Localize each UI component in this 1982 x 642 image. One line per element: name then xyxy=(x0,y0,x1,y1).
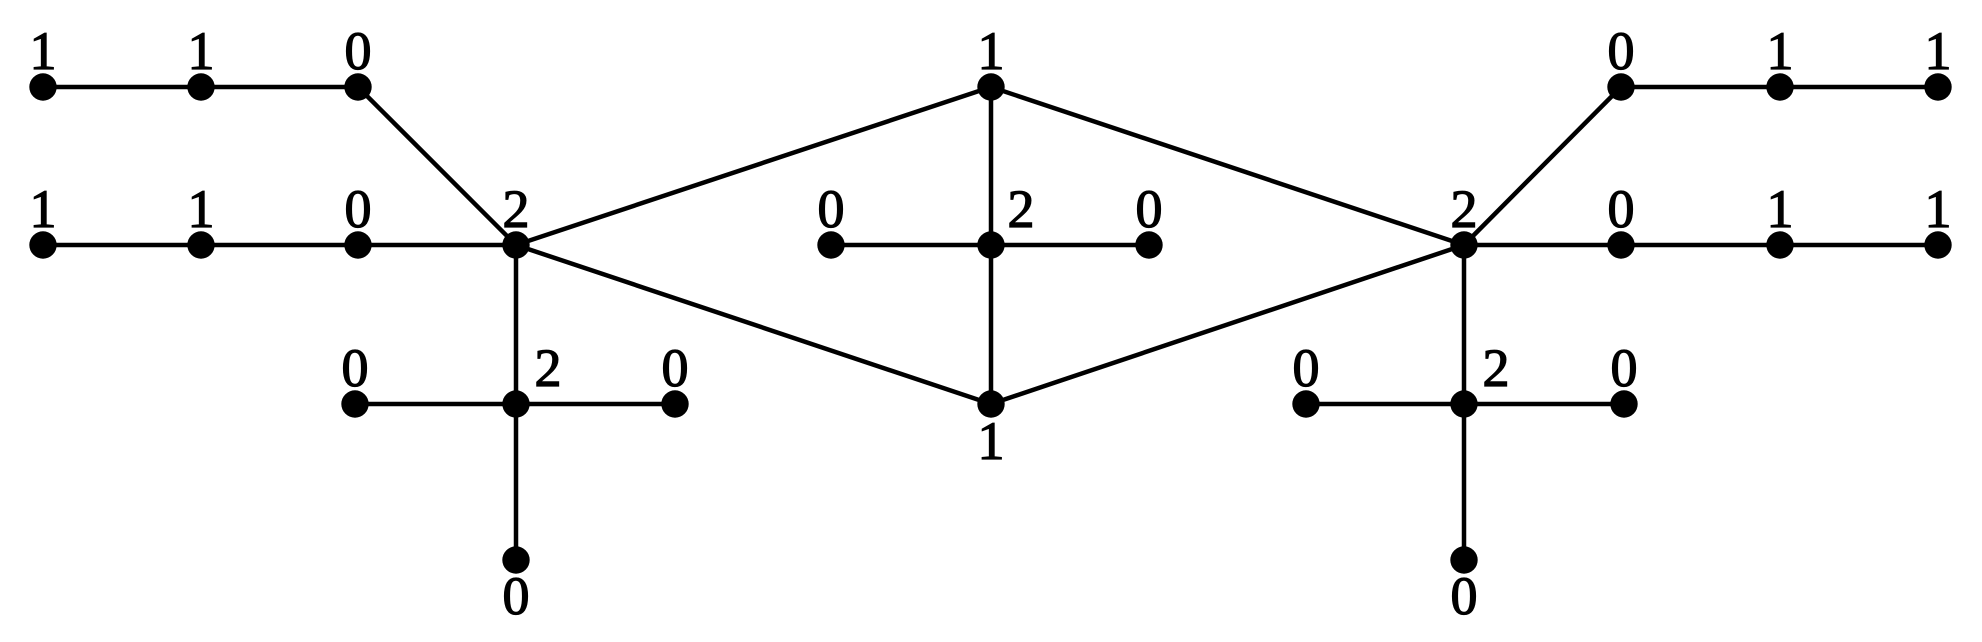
node Cc xyxy=(977,231,1004,258)
wire edge H1-Cb (left hub to bottom-center) xyxy=(516,245,991,404)
svg-text:2: 2 xyxy=(1451,179,1478,239)
node S2b xyxy=(1450,546,1477,573)
node Cr xyxy=(1135,231,1162,258)
node T3 xyxy=(344,73,371,100)
svg-text:0: 0 xyxy=(1611,338,1638,398)
node S2c xyxy=(1450,390,1477,417)
node Ct xyxy=(977,73,1004,100)
svg-text:2: 2 xyxy=(503,179,530,239)
node S1b xyxy=(502,546,529,573)
node H1 (left hub) xyxy=(502,231,529,258)
node Cb xyxy=(977,390,1004,417)
svg-text:1: 1 xyxy=(30,21,57,81)
svg-text:2: 2 xyxy=(1483,338,1510,398)
node Cl xyxy=(817,231,844,258)
svg-text:0: 0 xyxy=(1608,179,1635,239)
svg-text:0: 0 xyxy=(342,338,369,398)
svg-text:0: 0 xyxy=(662,338,689,398)
wire edge S1c-S1b (left star down leaf) xyxy=(514,404,519,560)
svg-text:2: 2 xyxy=(1008,179,1035,239)
node U3 xyxy=(1924,73,1951,100)
svg-text:0: 0 xyxy=(503,566,530,626)
svg-text:1: 1 xyxy=(188,179,215,239)
wire edge T3-H1 (diagonal into left hub) xyxy=(358,87,516,245)
wire edge H2-U1 (diagonal from right hub) xyxy=(1464,87,1621,245)
node T1 xyxy=(29,73,56,100)
node M2 xyxy=(187,231,214,258)
wire edge T1-T3 (top-left horizontal chain) xyxy=(43,85,358,90)
wire edge Ct-Cb (center vertical) xyxy=(989,87,994,404)
wire edge H2-N3 (mid-right horizontal chain) xyxy=(1464,243,1938,248)
node S2r xyxy=(1610,390,1637,417)
wire edge H1-S1c (left hub down to left star) xyxy=(514,245,519,404)
node M3 xyxy=(344,231,371,258)
node S1r xyxy=(661,390,688,417)
svg-text:2: 2 xyxy=(535,338,562,398)
wire edge U1-U3 (top-right horizontal chain) xyxy=(1621,85,1938,90)
svg-text:1: 1 xyxy=(1925,21,1952,81)
svg-text:0: 0 xyxy=(345,179,372,239)
wire edge Cb-H2 (bottom-center to right hub) xyxy=(991,245,1464,404)
svg-text:1: 1 xyxy=(978,411,1005,471)
svg-text:1: 1 xyxy=(1767,179,1794,239)
svg-text:0: 0 xyxy=(1293,338,1320,398)
svg-text:1: 1 xyxy=(188,21,215,81)
node N3 xyxy=(1924,231,1951,258)
wire edge Ct-H2 (top-center to right hub) xyxy=(991,87,1464,245)
wire edge S1l-S1r (left star horizontal) xyxy=(355,402,675,407)
svg-text:0: 0 xyxy=(345,21,372,81)
svg-text:0: 0 xyxy=(1608,21,1635,81)
svg-text:1: 1 xyxy=(1767,21,1794,81)
wire edge H2-S2c (right hub down to right star) xyxy=(1462,245,1467,404)
svg-text:0: 0 xyxy=(1451,566,1478,626)
node N2 xyxy=(1766,231,1793,258)
wire edge S2l-S2r (right star horizontal) xyxy=(1306,402,1624,407)
node S2l xyxy=(1292,390,1319,417)
node T2 xyxy=(187,73,214,100)
svg-text:0: 0 xyxy=(1136,179,1163,239)
node M1 xyxy=(29,231,56,258)
node H2 (right hub) xyxy=(1450,231,1477,258)
node U2 xyxy=(1766,73,1793,100)
node S1l xyxy=(341,390,368,417)
node N1 xyxy=(1607,231,1634,258)
wire edge H1-Ct (left hub to top-center) xyxy=(516,87,991,245)
svg-text:1: 1 xyxy=(1925,179,1952,239)
svg-text:1: 1 xyxy=(978,21,1005,81)
node S1c xyxy=(502,390,529,417)
svg-text:1: 1 xyxy=(30,179,57,239)
svg-text:0: 0 xyxy=(818,179,845,239)
node U1 xyxy=(1607,73,1634,100)
wire edge M1-H1 (mid-left horizontal chain) xyxy=(43,243,516,248)
wire edge Cl-Cr (center horizontal) xyxy=(831,243,1149,248)
wire edge S2c-S2b (right star down leaf) xyxy=(1462,404,1467,560)
